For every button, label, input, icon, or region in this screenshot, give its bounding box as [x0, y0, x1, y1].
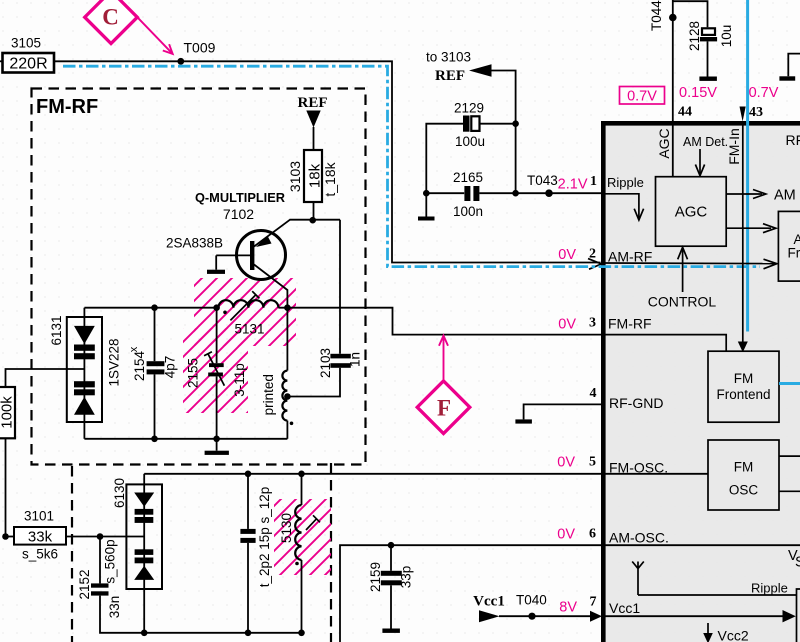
svg-text:s_5k6: s_5k6 [22, 547, 58, 562]
svg-text:10u: 10u [719, 25, 734, 48]
inductor 5131 (4 bumps) [218, 300, 278, 308]
arrow to REF (filled left triangle) [469, 64, 492, 76]
AM top rail (pin 5 net) [144, 473, 604, 475]
ground below 2159 [382, 629, 400, 633]
winding sense dot printed coil [290, 422, 294, 426]
capacitor 2154 top lead [154, 308, 156, 362]
svg-text:33p: 33p [399, 566, 414, 589]
svg-text:FM-In: FM-In [726, 128, 742, 165]
wire 6130 to bottom rail [143, 589, 145, 633]
C arrow to T009 [137, 17, 172, 53]
tank circuit top wire [84, 307, 218, 309]
capacitor 2152 bottom lead to rail [100, 596, 303, 633]
winding sense dot 5130 [295, 562, 299, 566]
junction dot coil left [213, 304, 220, 311]
svg-text:2165: 2165 [453, 170, 483, 185]
svg-text:AM-RF: AM-RF [608, 249, 652, 265]
svg-text:F: F [437, 396, 451, 421]
svg-text:T044: T044 [649, 0, 664, 31]
svg-text:0.7V: 0.7V [627, 89, 657, 105]
inductor 5130 (4 bumps, bulge left) [295, 505, 301, 560]
svg-text:2SA838B: 2SA838B [166, 236, 223, 251]
pin 7 wire inside [605, 615, 785, 617]
svg-text:FM: FM [734, 460, 754, 475]
svg-text:0V: 0V [557, 455, 575, 471]
IC block fill [601, 121, 800, 642]
FM OSC right outputs [779, 455, 800, 457]
svg-text:5: 5 [589, 455, 596, 470]
collector lead diagonal [254, 265, 287, 309]
right edge box (clipped) [797, 589, 800, 642]
FM-In arrowhead into FM Frontend [738, 342, 748, 353]
6131 bottom diode (up) [74, 381, 95, 387]
resistor 3101 33k box [14, 527, 66, 545]
wire cap 2129 right lead [480, 123, 516, 125]
FM-RF bottom rail [84, 438, 287, 440]
wire pin1 row to IC [479, 192, 602, 194]
svg-text:Fre: Fre [788, 246, 800, 261]
arrowhead into right box [783, 610, 796, 622]
REF input filled triangle [306, 111, 320, 128]
wire node to 33k [6, 536, 15, 538]
junction node T040 [528, 613, 535, 620]
base wire [216, 254, 250, 256]
resistor 100k box [0, 387, 15, 438]
svg-text:0.15V: 0.15V [679, 85, 717, 101]
svg-text:2152: 2152 [77, 569, 92, 599]
svg-text:43: 43 [749, 105, 763, 120]
CONTROL arrow to AGC [682, 248, 684, 293]
FM-In line inside IC [742, 121, 744, 343]
pin 43 entry arrowhead [740, 107, 746, 122]
resistor 3105 220R box [3, 53, 55, 73]
wire T044 net vertical to pin 44 [672, 0, 674, 177]
6130 top diode (down) [134, 493, 154, 507]
svg-text:0V: 0V [558, 247, 576, 263]
svg-text:Vcc1: Vcc1 [473, 594, 505, 610]
F arrow to pin3 wire [443, 338, 445, 381]
AGC box [656, 177, 727, 247]
wire coil right to step [278, 308, 604, 335]
AM output arrow from AGC [726, 193, 762, 195]
capacitor 2159 top lead [390, 545, 392, 571]
trimmer 2155 plates [209, 363, 224, 367]
svg-text:RF-GND: RF-GND [609, 395, 663, 411]
pin 5 wire inside to FM OSC [604, 473, 708, 475]
hatch patch around coil 5130 [274, 499, 331, 575]
emitter arrowhead (points to base) [256, 236, 272, 247]
printed coil bottom lead to rail [286, 421, 288, 439]
svg-text:2128: 2128 [687, 21, 702, 51]
pin 7 wire [499, 615, 594, 617]
varicap block 6131: top wire [83, 308, 85, 318]
svg-text:5131: 5131 [234, 322, 264, 337]
wire emitter to vertical [290, 219, 341, 221]
capacitor 2154 plates [147, 361, 165, 366]
svg-text:7: 7 [590, 595, 597, 610]
svg-text:Ripple: Ripple [607, 175, 644, 190]
capacitor 2159 bottom lead [390, 585, 392, 628]
svg-text:AM: AM [774, 188, 796, 204]
svg-text:3103: 3103 [287, 161, 303, 192]
junction node T009 [177, 58, 184, 65]
capacitor 2154 bottom lead [154, 374, 156, 438]
capacitor 2159 plates [381, 571, 402, 576]
svg-text:t_18k: t_18k [322, 161, 338, 196]
trimmer 2155 adjust arrow [208, 354, 224, 386]
svg-text:AGC: AGC [656, 128, 672, 158]
inductor 5130 top lead [301, 474, 303, 505]
6130 top lead from pin5 rail [143, 474, 145, 485]
trimmer 2155 bottom lead [216, 376, 218, 438]
svg-text:printed: printed [261, 374, 276, 415]
svg-text:T040: T040 [516, 593, 547, 608]
svg-text:1: 1 [590, 174, 597, 189]
capacitor t_2p2 15p s_12p plates [240, 529, 255, 534]
printed coil tap junction [284, 393, 291, 400]
wire 6131 to bottom rail [83, 422, 85, 439]
wire REF triangle to resistor 3103 [313, 127, 315, 150]
svg-text:5130: 5130 [279, 513, 294, 543]
wire 2128 to ground [707, 41, 709, 76]
arrow AGC to AM Frontend [726, 227, 771, 229]
IC left border [601, 121, 606, 642]
svg-text:4: 4 [590, 386, 597, 401]
IC top border [601, 121, 800, 126]
open arrowhead into pin 2 [588, 259, 602, 270]
svg-text:to 3103: to 3103 [426, 50, 471, 65]
printed coil upper lead [286, 308, 288, 371]
svg-text:Ripple: Ripple [751, 581, 788, 596]
wire from REF arrow to cap node [491, 71, 516, 194]
svg-text:CONTROL: CONTROL [648, 294, 717, 310]
junction node below 3103 [309, 217, 316, 224]
svg-text:1SV228: 1SV228 [107, 338, 122, 386]
AM dashed box right edge [330, 463, 332, 642]
junction dots on AM bottom rail [141, 630, 148, 637]
svg-text:t_2p2 15p s_12p: t_2p2 15p s_12p [257, 487, 272, 588]
FM OSC box [708, 440, 779, 510]
wire 100k down to 33k rail [5, 438, 7, 536]
svg-text:2154: 2154 [132, 350, 147, 381]
svg-text:AM-OSC.: AM-OSC. [609, 530, 669, 546]
6131 top diode (down) [74, 326, 95, 344]
blue dash-dot bus top [63, 66, 760, 266]
svg-text:2155: 2155 [186, 358, 201, 388]
Vcc2 down arrow [707, 623, 709, 634]
svg-text:2129: 2129 [454, 101, 484, 116]
svg-text:x: x [128, 346, 140, 352]
svg-text:100u: 100u [455, 134, 485, 149]
wire stub left of 220R [0, 60, 3, 62]
hatch patch around coil 5131 [194, 278, 296, 346]
wire 33k to 6130 tap [66, 536, 144, 538]
capacitor 2103 plates [330, 354, 350, 359]
svg-text:2: 2 [589, 247, 596, 262]
hatch patch around trimmer 2155 [183, 328, 248, 413]
svg-text:6131: 6131 [49, 315, 64, 345]
wire resistor 3103 to node [313, 202, 315, 221]
svg-text:33k: 33k [28, 529, 53, 546]
emitter lead diagonal [254, 220, 290, 247]
capacitor 2129 electrolytic plates [463, 116, 470, 132]
svg-text:0V: 0V [558, 317, 576, 333]
ripple wire to right box [638, 594, 796, 596]
svg-text:6: 6 [589, 527, 596, 542]
junction dot cap 2159 [388, 542, 395, 549]
svg-text:100n: 100n [453, 204, 483, 219]
inductor 5130 bottom lead [301, 560, 303, 633]
svg-text:Vcc2: Vcc2 [718, 628, 749, 642]
svg-text:REF: REF [298, 95, 328, 111]
capacitor t_2p2 top lead [247, 474, 249, 529]
ground below 2128 [699, 77, 717, 81]
svg-text:FM: FM [734, 371, 754, 386]
pin 7 entry arrowhead [590, 611, 602, 622]
ground at base [215, 255, 217, 269]
boxed voltage 0.7V [620, 87, 665, 105]
capacitor 2152 top lead [99, 537, 101, 584]
junction dot 2154 top [151, 304, 158, 311]
junction node T043 [545, 189, 553, 197]
svg-text:2159: 2159 [368, 562, 383, 592]
svg-text:0.7V: 0.7V [749, 85, 779, 101]
svg-text:44: 44 [678, 105, 692, 120]
AM Det. down arrow [699, 149, 701, 175]
svg-text:T009: T009 [184, 40, 216, 56]
antenna symbol [632, 562, 644, 596]
FM-RF dashed box [32, 89, 366, 465]
pin 1 wire inside with down arrow [605, 194, 639, 220]
vertical wire to cap 2103 [339, 220, 341, 354]
svg-text:FM-RF: FM-RF [608, 316, 652, 332]
svg-text:C: C [102, 5, 119, 30]
junction dot rail 2154 [151, 436, 158, 443]
svg-text:2103: 2103 [318, 348, 333, 378]
svg-text:2.1V: 2.1V [558, 177, 588, 193]
wire T044 top branch to cap 2128 [673, 1, 708, 27]
svg-text:Vcc1: Vcc1 [609, 600, 640, 616]
svg-text:s_560p: s_560p [103, 539, 118, 583]
varicap 6130 box [126, 484, 162, 589]
junction dot rail 2155 [213, 436, 220, 443]
tap wire to cap 2103 [287, 368, 340, 397]
pin 3 wire into FM Frontend [604, 335, 726, 352]
capacitor 2165 plates [464, 186, 470, 201]
wire left branch caps [426, 124, 463, 194]
svg-text:S: S [795, 555, 800, 571]
svg-text:3105: 3105 [11, 36, 41, 51]
svg-text:3101: 3101 [24, 509, 54, 524]
ground below caps [425, 193, 427, 216]
pin 4 wire and ground [524, 404, 604, 419]
svg-text:0V: 0V [557, 527, 575, 543]
pin 2 wire inside IC to AM Frontend [605, 262, 775, 265]
svg-text:7102: 7102 [223, 206, 254, 222]
capacitor 2152 plates [91, 583, 109, 587]
varicap 6131 box [67, 317, 102, 422]
partial ground symbol top right [788, 54, 800, 77]
junction dots cap network [423, 190, 430, 197]
svg-text:3-11p: 3-11p [232, 363, 247, 397]
printed coil (5 bumps, bulge left) [282, 371, 287, 421]
svg-text:3: 3 [589, 316, 596, 331]
svg-text:100k: 100k [0, 396, 16, 429]
svg-text:Q-MULTIPLIER: Q-MULTIPLIER [195, 190, 285, 205]
blue vertical line pin 43 [746, 0, 749, 332]
transistor base bar [250, 241, 254, 270]
6130 bottom diode (up) [135, 549, 154, 555]
Vcc1 filled triangle [479, 610, 500, 622]
svg-text:6130: 6130 [112, 478, 127, 508]
winding sense dot 5131 [223, 311, 227, 315]
AM Frontend box (clipped at right) [778, 211, 800, 281]
F diamond [417, 381, 470, 434]
junction dot t_2p2 [245, 471, 252, 478]
junction dot 2152 branch [97, 533, 104, 540]
junction dot coil right [284, 304, 291, 311]
svg-text:T043: T043 [527, 173, 558, 188]
junction node 100k/33k [2, 533, 9, 540]
svg-text:RF: RF [786, 132, 800, 148]
svg-text:33n: 33n [107, 596, 122, 619]
ground on bottom rail [216, 439, 218, 451]
svg-text:AGC: AGC [675, 204, 708, 221]
svg-text:FM-RF: FM-RF [36, 96, 98, 118]
FM Frontend box [708, 351, 779, 422]
junction node T044 [669, 14, 677, 22]
svg-text:OSC: OSC [729, 483, 759, 498]
trimmer arrow across 5131 [230, 295, 255, 321]
wire pin1 row left [426, 192, 464, 194]
svg-text:1n: 1n [348, 352, 363, 367]
junction dot 5130 [298, 471, 305, 478]
blue output right of FM Frontend [779, 382, 800, 385]
varactor tap wire to 100k [6, 369, 85, 387]
svg-text:Frontend: Frontend [716, 387, 770, 402]
AM dashed box left edge [71, 466, 73, 642]
6131 internal wire [83, 317, 85, 422]
svg-text:18k: 18k [307, 163, 324, 188]
svg-text:4p7: 4p7 [163, 356, 178, 379]
capacitor 2128 electrolytic plates [702, 28, 715, 35]
transistor Q 7102 circle [237, 231, 286, 280]
resistor 3103 box [304, 150, 322, 202]
wire T009 net: 220R output to pin 2 AM-RF [54, 61, 601, 262]
svg-text:8V: 8V [559, 600, 577, 616]
trimmer 2155 top lead [216, 308, 218, 364]
pin 6 net wire [340, 545, 800, 642]
trimmer arrow across 5130 [306, 519, 317, 530]
C diamond [85, 0, 138, 43]
svg-text:220R: 220R [9, 56, 47, 73]
6130 internal wire [143, 484, 145, 589]
capacitor t_2p2 bottom lead [247, 543, 249, 633]
svg-text:AM Det.: AM Det. [683, 135, 728, 149]
svg-text:REF: REF [435, 68, 465, 84]
